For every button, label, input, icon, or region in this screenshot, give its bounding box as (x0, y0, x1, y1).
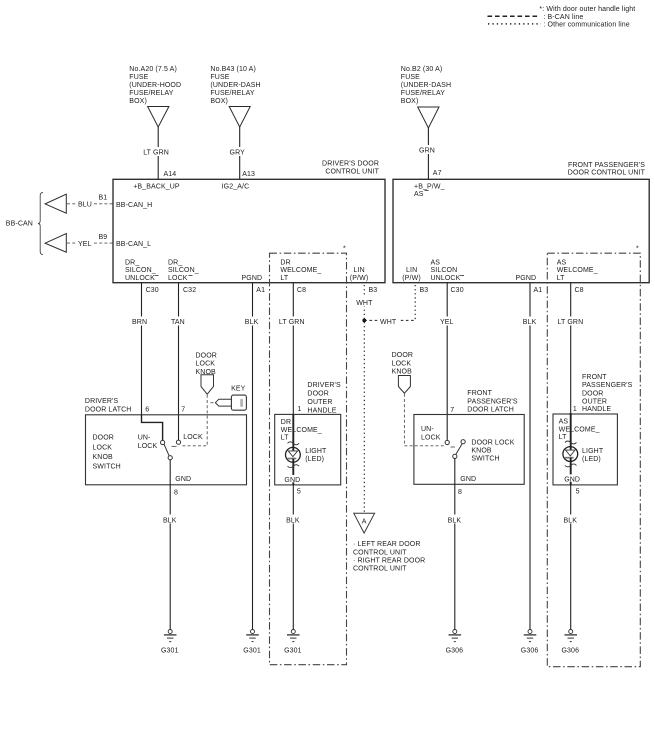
svg-text:DR_: DR_ (125, 260, 139, 267)
svg-text:UN-: UN- (421, 426, 434, 433)
svg-text:AS: AS (557, 260, 567, 267)
pin B3 label (driver) (369, 287, 378, 294)
svg-text:*: * (343, 246, 346, 253)
svg-text:BRN: BRN (132, 319, 147, 326)
UN-LOCK contact label (passenger) (421, 426, 441, 441)
ground G306 (passenger latch) (446, 630, 464, 655)
wire pin 6 internal bend to UNLOCK contact (142, 415, 163, 441)
svg-text:DOOR CONTROL UNIT: DOOR CONTROL UNIT (568, 169, 646, 176)
svg-text:C30: C30 (146, 287, 159, 294)
driver door lock knob symbol (201, 375, 214, 394)
svg-text:· RIGHT REAR DOOR: · RIGHT REAR DOOR (353, 558, 425, 565)
BB-CAN brace (38, 192, 43, 254)
connector A to rear door control units (354, 513, 375, 533)
svg-text:KNOB: KNOB (93, 454, 114, 461)
svg-text:KEY: KEY (231, 385, 246, 392)
dash-dot box passenger welcome light (with door outer handle light) (547, 246, 640, 667)
svg-text:(LED): (LED) (305, 456, 324, 463)
svg-text:FRONT: FRONT (582, 374, 607, 381)
BB-CAN_H network triangle (45, 194, 66, 213)
svg-text:IG2_A/C: IG2_A/C (222, 184, 250, 191)
wire YEL passenger C30 to passenger latch pin 7 (439, 283, 457, 441)
svg-text:GND: GND (460, 476, 476, 483)
LOCK contact label (driver) (183, 434, 203, 441)
svg-text:BLU: BLU (78, 202, 92, 209)
wire BLU B-CAN to pin B1 (67, 195, 113, 209)
pin C8 label (passenger) (575, 287, 584, 294)
svg-text:: Other communication line: : Other communication line (543, 22, 629, 29)
svg-text:6: 6 (145, 407, 149, 414)
wire WHT LIN dashed horizontal to passenger (364, 316, 415, 326)
svg-text:(P/W): (P/W) (350, 275, 368, 282)
svg-text:YEL: YEL (440, 319, 454, 326)
svg-text:WHT: WHT (380, 319, 397, 326)
svg-text:G301: G301 (243, 648, 261, 655)
pin C30 label (146, 287, 159, 294)
passenger door lock knob symbol (398, 376, 410, 394)
svg-text:AS: AS (414, 191, 424, 198)
fuse A20 power triangle (148, 107, 169, 128)
pin C30 label (passenger) (451, 287, 464, 294)
svg-text:SILCON: SILCON (431, 267, 458, 274)
svg-text:LOCK: LOCK (392, 360, 412, 367)
svg-text:8: 8 (174, 490, 178, 497)
svg-text:AS: AS (559, 419, 569, 426)
pin 5 label (driver handle) (297, 489, 301, 496)
svg-text:LOCK: LOCK (196, 361, 216, 368)
passenger unit pin LIN (P/W) label (402, 267, 420, 282)
svg-text:DOOR: DOOR (196, 352, 217, 359)
key symbol (215, 395, 246, 410)
AS WELCOME_LT label (handle) (558, 417, 601, 441)
GND label (driver latch) (175, 476, 191, 483)
svg-text:5: 5 (297, 489, 301, 496)
ground G301 (driver latch) (161, 630, 179, 655)
svg-text:FUSE/RELAY: FUSE/RELAY (129, 90, 173, 97)
pin 1 label (passenger handle) (573, 406, 577, 413)
svg-text:PGND: PGND (242, 275, 263, 282)
svg-text:7: 7 (181, 407, 185, 414)
mechanical link driver knob to switch (172, 395, 208, 447)
pin B3 label (passenger) (420, 287, 429, 294)
svg-text:LT GRN: LT GRN (558, 319, 584, 326)
passenger door outer handle box (553, 414, 617, 485)
svg-text:LT: LT (559, 434, 567, 441)
pin B9 BB-CAN_L label (116, 241, 151, 248)
ground G306 (passenger PGND) (521, 630, 539, 655)
svg-text:CONTROL UNIT: CONTROL UNIT (353, 566, 407, 573)
svg-text:DRIVER'S: DRIVER'S (307, 382, 341, 389)
driver unit pin LIN (P/W) label (350, 267, 368, 282)
svg-text:DOOR: DOOR (93, 435, 114, 442)
wire YEL B-CAN to pin B9 (67, 234, 113, 248)
BB-CAN_L network triangle (45, 234, 66, 253)
svg-text:DR: DR (281, 419, 291, 426)
svg-text:PASSENGER'S: PASSENGER'S (582, 382, 633, 389)
svg-text:PGND: PGND (516, 275, 537, 282)
svg-text:SILCON_: SILCON_ (125, 267, 156, 274)
svg-text:: B-CAN line: : B-CAN line (543, 14, 583, 21)
svg-text:A1: A1 (256, 287, 265, 294)
svg-text:BB-CAN_H: BB-CAN_H (116, 202, 152, 209)
svg-text:DOOR: DOOR (307, 391, 328, 398)
svg-text:C30: C30 (451, 287, 464, 294)
svg-text:1: 1 (573, 406, 577, 413)
svg-text:YEL: YEL (78, 241, 92, 248)
svg-text:LIGHT: LIGHT (305, 448, 327, 455)
BB-CAN label (6, 221, 33, 228)
svg-text:GND: GND (284, 477, 300, 484)
welcome light LED (driver) (286, 414, 301, 485)
wire GRY from fuse B43 to A13 (229, 127, 256, 179)
svg-text:FRONT PASSENGER'S: FRONT PASSENGER'S (568, 162, 645, 169)
svg-text:(P/W): (P/W) (402, 275, 420, 282)
svg-text:LOCK: LOCK (93, 444, 113, 451)
svg-text:WHT: WHT (356, 300, 373, 307)
driver door lock knob label (196, 352, 217, 376)
DR WELCOME_LT label (handle) (280, 417, 323, 441)
svg-text:HANDLE: HANDLE (582, 406, 611, 413)
svg-text:CONTROL UNIT: CONTROL UNIT (353, 549, 407, 556)
legend B-CAN line sample (488, 14, 584, 21)
DRIVER'S DOOR LATCH label (85, 398, 132, 413)
svg-text:(UNDER-DASH: (UNDER-DASH (210, 82, 260, 89)
passenger unit pin AS WELCOME_LT label (557, 260, 598, 282)
svg-text:OUTER: OUTER (307, 399, 332, 406)
svg-text:FRONT: FRONT (467, 390, 492, 397)
wire BLK passenger welcome LED to G306 (562, 485, 579, 630)
ground G306 (passenger welcome light) (561, 630, 579, 655)
svg-text:UNLOCK: UNLOCK (125, 275, 155, 282)
fuse B43 power triangle (229, 107, 250, 128)
svg-text:LT: LT (280, 275, 288, 282)
wire WHT LIN dotted driver B3 down to connector A (355, 285, 374, 513)
pin 5 label (passenger handle) (576, 489, 580, 496)
svg-text:GND: GND (175, 476, 191, 483)
svg-text:SWITCH: SWITCH (471, 456, 499, 463)
svg-text:LT GRN: LT GRN (279, 319, 305, 326)
wire BLK driver PGND A1 to G301 (244, 283, 261, 630)
svg-text:BB-CAN: BB-CAN (6, 221, 33, 228)
svg-text:1: 1 (298, 406, 302, 413)
svg-text:UNLOCK: UNLOCK (431, 275, 461, 282)
svg-text:B9: B9 (99, 234, 108, 241)
svg-text:+B_P/W_: +B_P/W_ (414, 184, 445, 191)
svg-text:FUSE/RELAY: FUSE/RELAY (401, 90, 445, 97)
svg-text:LT: LT (281, 435, 289, 442)
door lock knob switch label (driver) (93, 435, 121, 471)
legend note: with door outer handle light (539, 6, 635, 13)
svg-text:BOX): BOX) (401, 98, 419, 105)
wire GRN from fuse B2 to A7 (418, 128, 442, 179)
svg-text:BLK: BLK (286, 517, 300, 524)
GND label (driver handle) (284, 475, 301, 484)
wire BLK driver latch pin 8 to G301 (162, 485, 179, 630)
GND label (passenger handle) (564, 474, 581, 483)
front passenger's door latch box (414, 415, 524, 485)
wire common to latch pin 8 (169, 460, 171, 485)
svg-text:No.A20 (7.5 A): No.A20 (7.5 A) (129, 66, 177, 73)
wire BLK passenger PGND A1 to G306 (522, 283, 539, 630)
pin A1 label (passenger) (534, 287, 543, 294)
svg-text:(LED): (LED) (582, 456, 601, 463)
switch contacts and arm (driver door lock knob switch) (161, 440, 181, 460)
svg-text:+B_BACK_UP: +B_BACK_UP (133, 184, 180, 191)
fuse No.B2 label (401, 66, 451, 105)
driver unit pin DR_SILCON_LOCK label (168, 260, 199, 282)
wire BRN C30 to driver latch pin 6 (131, 283, 150, 415)
svg-text:B1: B1 (99, 195, 108, 202)
driver unit pin DR_SILCON_UNLOCK label (125, 260, 159, 282)
node junction WHT LIN (362, 319, 366, 323)
svg-text:G301: G301 (161, 648, 179, 655)
mechanical link passenger knob to switch (404, 394, 455, 447)
svg-text:LOCK: LOCK (138, 443, 158, 450)
legend other communication line sample (488, 22, 630, 29)
svg-text:FUSE: FUSE (210, 74, 229, 81)
pin 8 label (passenger latch) (458, 489, 462, 496)
svg-text:GRY: GRY (230, 150, 246, 157)
wire LT GRN passenger C8 to door outer handle pin 1 (557, 283, 587, 413)
svg-text:8: 8 (458, 489, 462, 496)
svg-text:(UNDER-HOOD: (UNDER-HOOD (129, 82, 181, 89)
wire BLK passenger latch pin 8 to G306 (446, 484, 463, 629)
svg-text:DRIVER'S DOOR: DRIVER'S DOOR (322, 160, 379, 167)
svg-text:WELCOME_: WELCOME_ (280, 267, 321, 274)
svg-text:A13: A13 (242, 171, 255, 178)
fuse No.B43 label (210, 66, 260, 105)
svg-text:AS: AS (431, 260, 441, 267)
svg-text:BLK: BLK (163, 517, 177, 524)
svg-text:GRN: GRN (419, 148, 435, 155)
svg-text:WELCOME_: WELCOME_ (557, 267, 598, 274)
pin 7 label (181, 407, 185, 414)
svg-text:BB-CAN_L: BB-CAN_L (116, 241, 151, 248)
fuse No.A20 label (129, 66, 181, 105)
FRONT PASSENGER'S DOOR OUTER HANDLE label (582, 374, 633, 413)
welcome light LED (passenger) (563, 413, 578, 485)
svg-text:A1: A1 (534, 287, 543, 294)
svg-text:C32: C32 (183, 287, 196, 294)
svg-text:BOX): BOX) (210, 98, 228, 105)
svg-text:DRIVER'S: DRIVER'S (85, 398, 119, 405)
svg-text:FUSE/RELAY: FUSE/RELAY (210, 90, 254, 97)
svg-text:DR_: DR_ (168, 260, 182, 267)
wire TAN C32 to LOCK contact (170, 283, 187, 441)
UN-LOCK contact label (driver) (138, 435, 158, 451)
mechanical link key to knob linkage (211, 402, 215, 404)
svg-text:FUSE: FUSE (129, 74, 148, 81)
ground G301 (driver PGND) (243, 630, 261, 655)
svg-text:LT GRN: LT GRN (143, 150, 169, 157)
passenger door lock knob label (392, 352, 413, 376)
wire WHT LIN dotted passenger B3 (414, 285, 416, 320)
LIGHT (LED) label (driver) (305, 448, 327, 463)
svg-text:BLK: BLK (523, 319, 537, 326)
svg-text:HANDLE: HANDLE (307, 408, 336, 415)
svg-text:DOOR LATCH: DOOR LATCH (85, 406, 132, 413)
svg-text:WELCOME_: WELCOME_ (281, 427, 322, 434)
driver unit pin PGND label (242, 275, 263, 282)
svg-text:LIGHT: LIGHT (582, 448, 604, 455)
svg-text:5: 5 (576, 489, 580, 496)
wire LT GRN from fuse A20 to A14 (142, 127, 176, 179)
svg-text:CONTROL UNIT: CONTROL UNIT (325, 168, 379, 175)
svg-text:KNOB: KNOB (471, 448, 492, 455)
svg-text:DR: DR (280, 260, 290, 267)
wire BLK driver welcome LED to G301 (285, 485, 302, 630)
svg-text:SWITCH: SWITCH (93, 463, 121, 470)
pin A1 label (driver) (256, 287, 265, 294)
switch contacts and arm (passenger door lock knob switch) (445, 440, 465, 459)
svg-text:OUTER: OUTER (582, 398, 607, 405)
svg-text:BLK: BLK (564, 517, 578, 524)
door lock knob switch label (passenger) (471, 440, 514, 463)
dash-dot box driver welcome light (with door outer handle light) (270, 246, 347, 665)
passenger unit pin AS_SILCON_UNLOCK label (431, 260, 465, 282)
driver's door outer handle box (275, 414, 341, 485)
svg-text:C8: C8 (297, 287, 306, 294)
svg-text:*: * (636, 246, 639, 253)
svg-text:A7: A7 (433, 170, 442, 177)
svg-text:DOOR LOCK: DOOR LOCK (471, 440, 514, 447)
svg-text:· LEFT REAR DOOR: · LEFT REAR DOOR (353, 541, 421, 548)
svg-text:GND: GND (564, 476, 580, 483)
pin B1 BB-CAN_H label (116, 202, 152, 209)
driver's door control unit box (113, 160, 385, 282)
pin 1 label (driver handle) (298, 406, 302, 413)
pin C8 label (driver) (297, 287, 306, 294)
svg-text:BOX): BOX) (129, 98, 147, 105)
svg-text:TAN: TAN (171, 319, 185, 326)
svg-text:BLK: BLK (245, 319, 259, 326)
wire common to passenger latch pin 8 (454, 459, 456, 485)
svg-text:WELCOME_: WELCOME_ (559, 427, 600, 434)
svg-text:DOOR: DOOR (392, 352, 413, 359)
svg-text:No.B2 (30 A): No.B2 (30 A) (401, 66, 443, 73)
svg-text:(UNDER-DASH: (UNDER-DASH (401, 82, 451, 89)
svg-text:G301: G301 (284, 648, 302, 655)
svg-text:G306: G306 (446, 648, 464, 655)
passenger unit pin PGND label (516, 275, 537, 282)
fuse B2 power triangle (418, 107, 439, 128)
svg-text:SILCON_: SILCON_ (168, 267, 199, 274)
svg-text:7: 7 (450, 407, 454, 414)
svg-text:C8: C8 (575, 287, 584, 294)
svg-text:LIN: LIN (354, 267, 365, 274)
svg-text:FUSE: FUSE (401, 74, 420, 81)
svg-text:DOOR: DOOR (582, 390, 603, 397)
svg-text:*: With door outer handle ligh: *: With door outer handle light (539, 6, 635, 13)
ground G301 (driver welcome light) (284, 630, 302, 655)
svg-text:A: A (362, 519, 367, 526)
pin C32 label (183, 287, 196, 294)
svg-text:UN-: UN- (138, 435, 151, 442)
svg-text:LIN: LIN (406, 267, 417, 274)
pin 8 label (driver latch) (174, 490, 178, 497)
rear door control units note (353, 541, 425, 573)
driver unit pin DR WELCOME_LT label (280, 260, 321, 282)
svg-text:BLK: BLK (448, 517, 462, 524)
svg-text:LT: LT (557, 275, 565, 282)
GND label (passenger latch) (460, 476, 476, 483)
svg-text:LOCK: LOCK (421, 434, 441, 441)
svg-text:A14: A14 (164, 171, 177, 178)
FRONT PASSENGER'S DOOR LATCH label (467, 390, 518, 414)
svg-text:KNOB: KNOB (392, 369, 413, 376)
driver's door latch box (86, 415, 247, 485)
svg-text:B3: B3 (420, 287, 429, 294)
KEY label (231, 385, 246, 392)
svg-text:DOOR LATCH: DOOR LATCH (467, 407, 514, 414)
front passenger's door control unit box (393, 162, 649, 283)
pin 7 label (passenger latch) (450, 407, 454, 414)
DRIVER'S DOOR OUTER HANDLE label (307, 382, 341, 415)
svg-text:B3: B3 (369, 287, 378, 294)
svg-text:LOCK: LOCK (168, 275, 188, 282)
wire LT GRN driver C8 to door outer handle pin 1 (278, 283, 308, 415)
pin 6 label (145, 407, 149, 414)
svg-text:PASSENGER'S: PASSENGER'S (467, 398, 518, 405)
svg-text:G306: G306 (521, 648, 539, 655)
LIGHT (LED) label (passenger) (582, 448, 604, 463)
svg-text:G306: G306 (561, 648, 579, 655)
svg-text:No.B43 (10 A): No.B43 (10 A) (210, 66, 256, 73)
svg-text:LOCK: LOCK (183, 434, 203, 441)
